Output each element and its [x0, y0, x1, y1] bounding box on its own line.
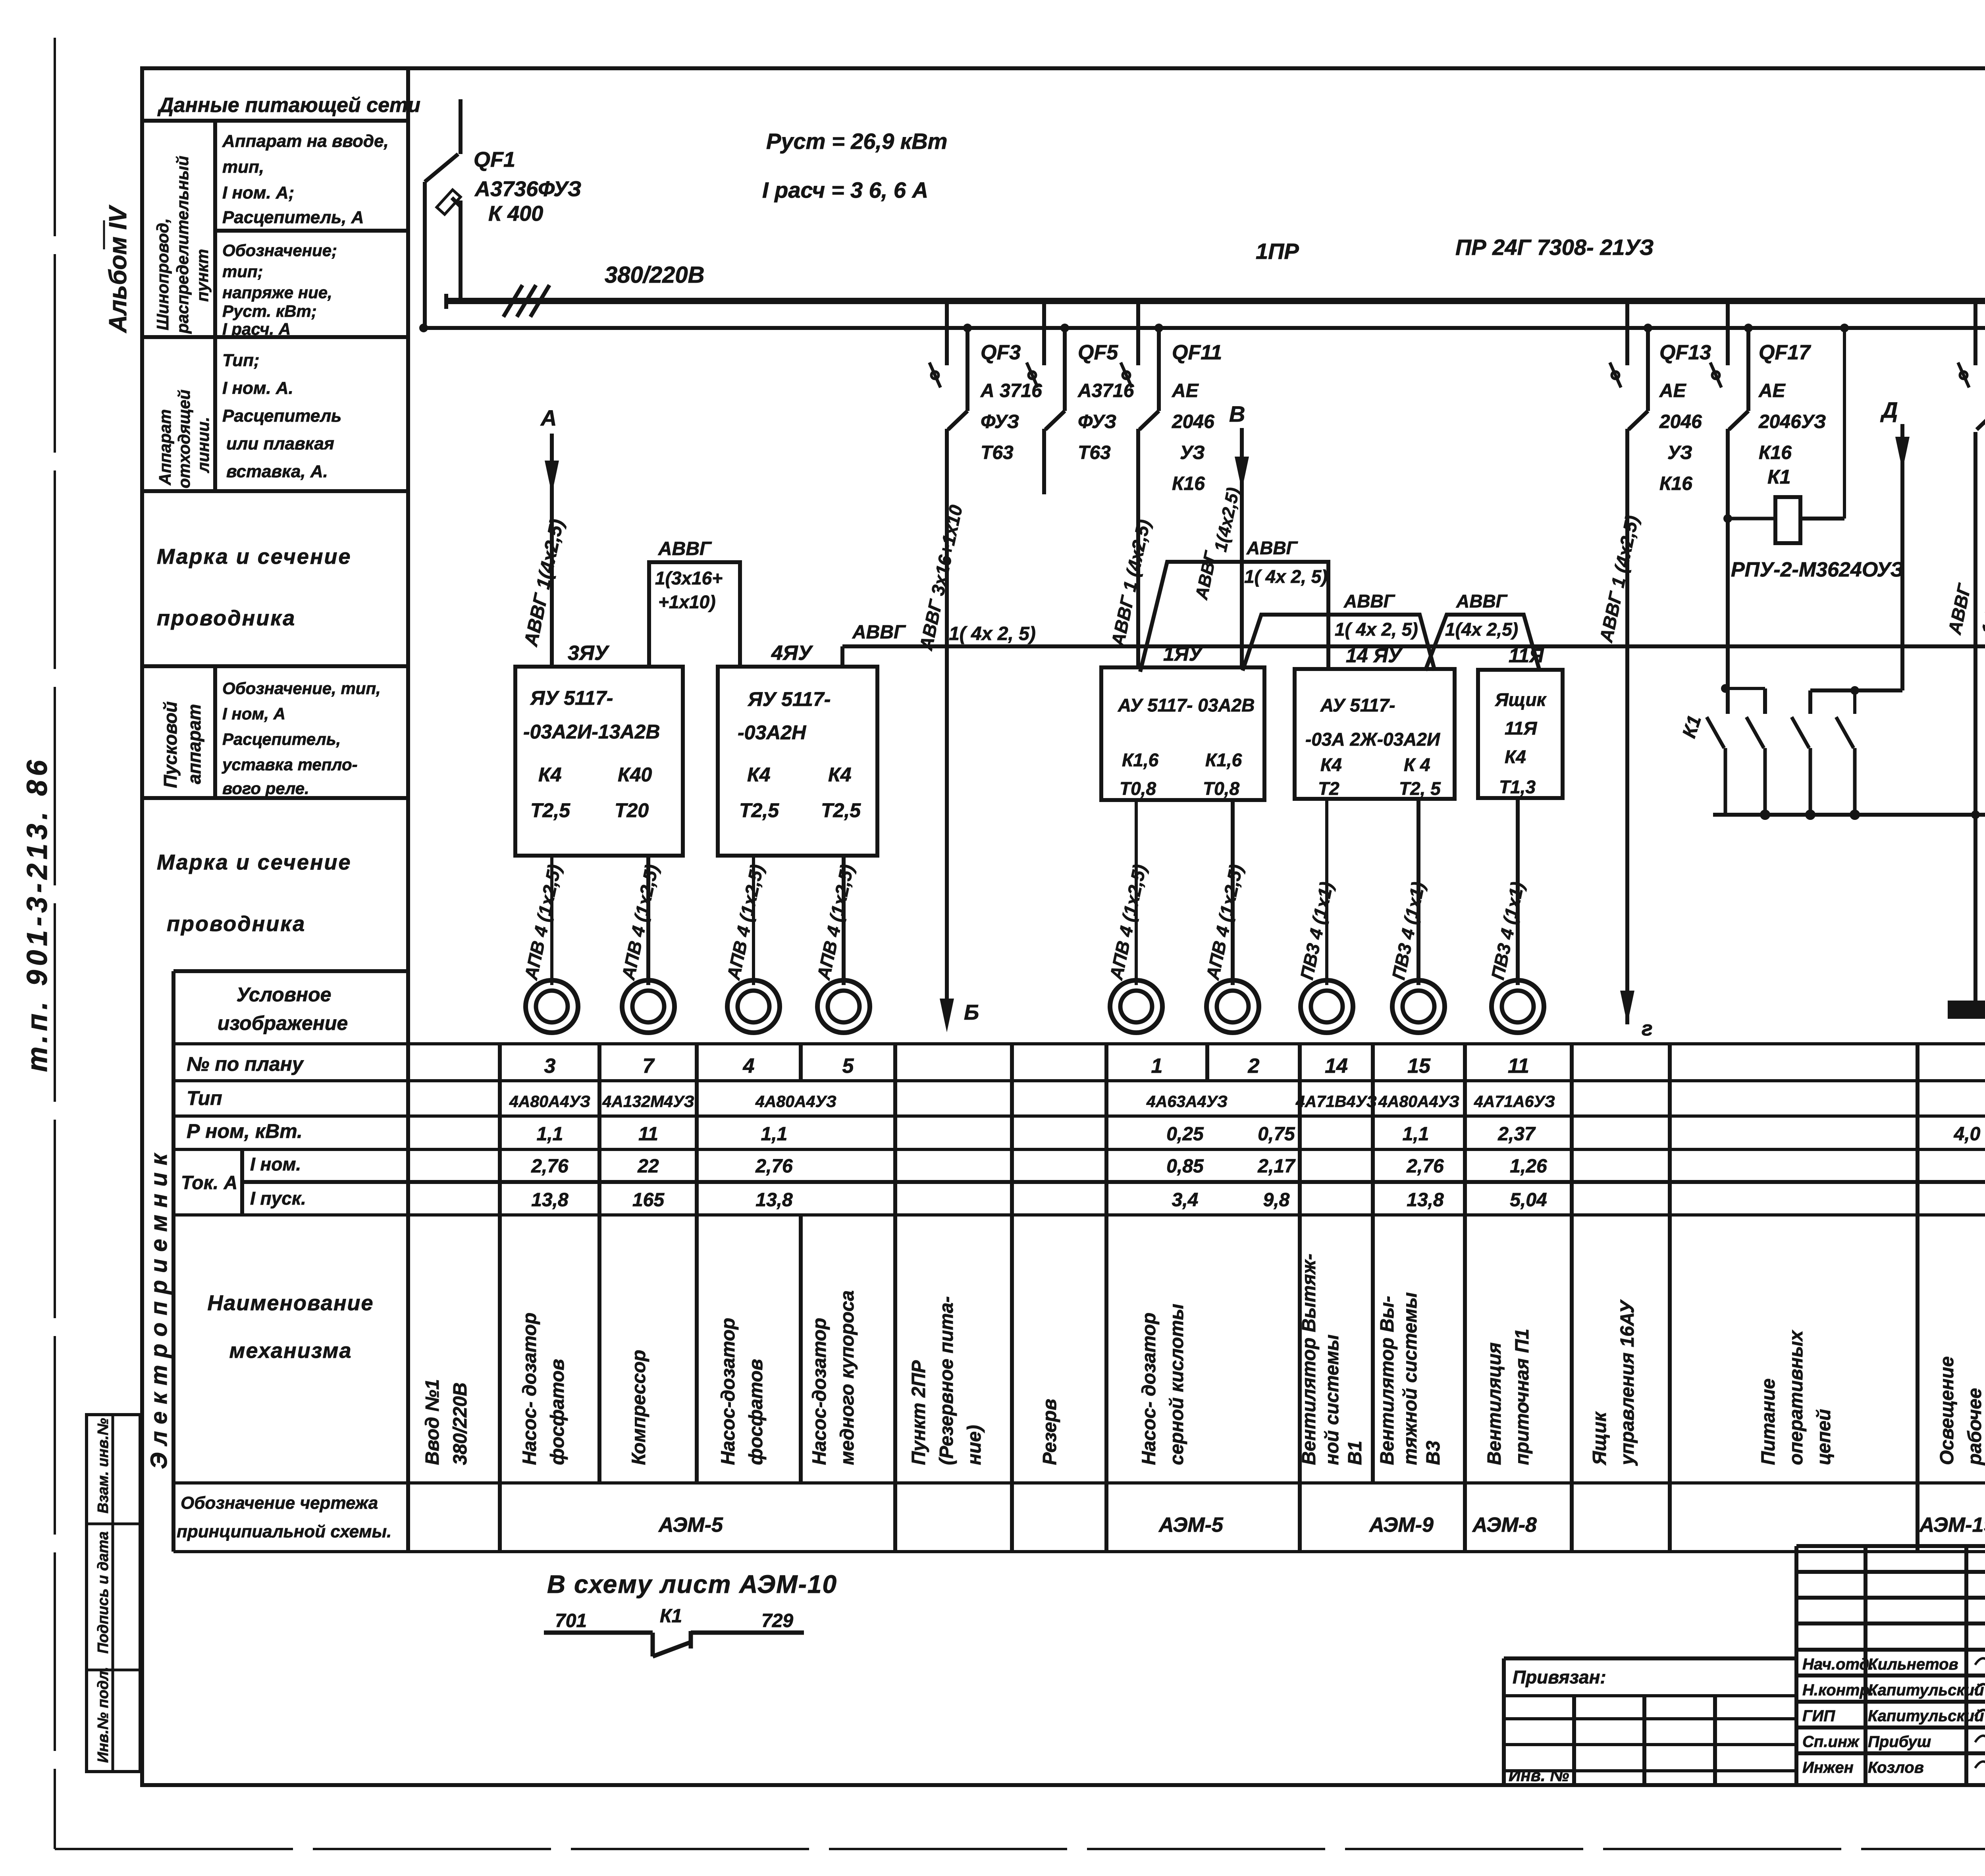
svg-text:380/220В: 380/220В: [450, 1382, 471, 1465]
svg-text:Р ном, кВт.: Р ном, кВт.: [187, 1120, 303, 1142]
svg-text:пункт: пункт: [193, 249, 212, 302]
svg-text:-03А2Н: -03А2Н: [738, 721, 806, 744]
svg-text:вставка, А.: вставка, А.: [226, 462, 328, 481]
svg-text:5: 5: [842, 1055, 854, 1078]
svg-text:14: 14: [1325, 1055, 1348, 1078]
svg-text:3,4: 3,4: [1172, 1190, 1199, 1211]
svg-text:I пуск.: I пуск.: [250, 1188, 306, 1209]
svg-text:Т0,8: Т0,8: [1203, 778, 1239, 799]
svg-text:4,0: 4,0: [1954, 1124, 1981, 1145]
svg-text:АВВГ: АВВГ: [658, 538, 712, 559]
svg-text:0,25: 0,25: [1166, 1124, 1204, 1145]
svg-text:9,8: 9,8: [1263, 1190, 1290, 1211]
svg-text:Тип;: Тип;: [222, 351, 260, 370]
svg-text:-03А 2Ж-03А2И: -03А 2Ж-03А2И: [1305, 729, 1440, 750]
svg-text:Ящик: Ящик: [1495, 689, 1547, 710]
svg-text:АЭМ-8: АЭМ-8: [1472, 1514, 1537, 1537]
svg-text:I ном. А;: I ном. А;: [222, 183, 294, 202]
svg-text:Аппарат: Аппарат: [156, 409, 174, 486]
svg-text:А 3716: А 3716: [980, 380, 1042, 401]
svg-text:QF5: QF5: [1078, 341, 1118, 364]
svg-text:А: А: [540, 405, 557, 430]
svg-text:т.п. 901-3-213. 86: т.п. 901-3-213. 86: [21, 756, 53, 1072]
svg-text:Взам. инв.№: Взам. инв.№: [95, 1418, 112, 1514]
svg-text:165: 165: [632, 1190, 665, 1211]
svg-text:Т1,3: Т1,3: [1499, 777, 1536, 797]
svg-text:Пункт 2ПР: Пункт 2ПР: [908, 1360, 929, 1465]
svg-text:Вентиляция: Вентиляция: [1484, 1342, 1505, 1465]
svg-text:I ном.: I ном.: [250, 1154, 301, 1174]
svg-text:К1: К1: [660, 1606, 682, 1627]
svg-text:1,26: 1,26: [1510, 1156, 1547, 1177]
svg-text:1,1: 1,1: [1403, 1124, 1429, 1145]
svg-text:Инжен: Инжен: [1802, 1759, 1854, 1776]
svg-text:Аппарат на вводе,: Аппарат на вводе,: [222, 131, 389, 151]
svg-text:0,85: 0,85: [1166, 1156, 1204, 1177]
svg-text:Обозначение чертежа: Обозначение чертежа: [181, 1493, 378, 1513]
svg-text:АЭМ-9: АЭМ-9: [1368, 1514, 1434, 1537]
svg-text:701: 701: [555, 1610, 587, 1631]
svg-text:АВВГ: АВВГ: [1343, 591, 1395, 611]
svg-text:Т2, 5: Т2, 5: [1399, 778, 1441, 799]
svg-text:1,1: 1,1: [761, 1124, 788, 1145]
svg-text:или плавкая: или плавкая: [226, 434, 334, 453]
svg-text:Ввод №1: Ввод №1: [422, 1379, 443, 1465]
svg-text:QF3: QF3: [981, 341, 1021, 364]
svg-text:тип,: тип,: [222, 157, 264, 177]
svg-text:(Резервное пита-: (Резервное пита-: [936, 1296, 957, 1465]
svg-text:2046: 2046: [1659, 411, 1702, 432]
svg-text:11Я: 11Я: [1509, 644, 1544, 667]
svg-text:Резерв: Резерв: [1039, 1399, 1060, 1465]
svg-text:380/220В: 380/220В: [605, 262, 705, 288]
svg-text:К4: К4: [1505, 746, 1526, 767]
svg-text:ной системы: ной системы: [1322, 1334, 1343, 1465]
svg-text:отходящей: отходящей: [175, 389, 193, 488]
svg-text:ГИП: ГИП: [1802, 1707, 1835, 1725]
svg-text:К1,6: К1,6: [1205, 750, 1242, 770]
svg-text:2,37: 2,37: [1497, 1124, 1536, 1145]
svg-text:Капитульский: Капитульский: [1868, 1681, 1984, 1699]
svg-text:11: 11: [1508, 1055, 1529, 1078]
svg-text:К4: К4: [538, 764, 562, 786]
svg-text:В1: В1: [1345, 1441, 1366, 1465]
svg-text:изображение: изображение: [218, 1012, 348, 1034]
svg-text:механизма: механизма: [229, 1339, 352, 1363]
svg-text:ЯУ 5117-: ЯУ 5117-: [530, 687, 613, 709]
svg-text:Расцепитель,: Расцепитель,: [222, 730, 341, 748]
svg-text:11Я: 11Я: [1505, 718, 1538, 738]
svg-text:QF13: QF13: [1659, 341, 1711, 364]
svg-text:Т2,5: Т2,5: [821, 799, 861, 821]
svg-text:К4: К4: [828, 764, 852, 786]
svg-text:К1,6: К1,6: [1122, 750, 1159, 770]
svg-text:АЕ: АЕ: [1659, 380, 1687, 401]
svg-text:Привязан:: Привязан:: [1513, 1667, 1606, 1687]
svg-text:Б: Б: [964, 1001, 979, 1024]
svg-text:QF1: QF1: [474, 148, 515, 172]
svg-text:1ЯУ: 1ЯУ: [1163, 643, 1204, 665]
svg-text:Марка и сечение: Марка и сечение: [157, 545, 352, 569]
svg-text:Данные питающей сети: Данные питающей сети: [157, 94, 420, 117]
svg-text:уставка тепло-: уставка тепло-: [222, 755, 358, 774]
svg-text:Насос- дозатор: Насос- дозатор: [1139, 1313, 1160, 1465]
svg-text:УЗ: УЗ: [1180, 442, 1205, 463]
svg-text:К16: К16: [1172, 473, 1205, 494]
svg-text:Т0,8: Т0,8: [1120, 778, 1156, 799]
svg-text:2,76: 2,76: [531, 1156, 569, 1177]
svg-text:4А71А6УЗ: 4А71А6УЗ: [1474, 1092, 1555, 1111]
svg-text:Нач.отд.: Нач.отд.: [1802, 1656, 1873, 1673]
svg-text:Условное: Условное: [237, 983, 331, 1006]
svg-text:Т20: Т20: [615, 799, 649, 821]
svg-text:приточная П1: приточная П1: [1512, 1329, 1533, 1465]
svg-text:1ПР: 1ПР: [1256, 239, 1299, 264]
svg-text:г: г: [1642, 1017, 1653, 1040]
svg-text:2046УЗ: 2046УЗ: [1758, 411, 1826, 432]
svg-text:Пусковой: Пусковой: [160, 702, 181, 789]
svg-text:13,8: 13,8: [1407, 1190, 1444, 1211]
svg-text:медного купороса: медного купороса: [837, 1290, 858, 1465]
svg-text:Компрессор: Компрессор: [628, 1350, 649, 1465]
svg-text:АУ 5117- 03А2В: АУ 5117- 03А2В: [1118, 695, 1255, 715]
svg-text:А3736ФУЗ: А3736ФУЗ: [474, 177, 581, 201]
svg-text:1(4х 2,5): 1(4х 2,5): [1445, 619, 1518, 640]
svg-text:Н.контр.: Н.контр.: [1802, 1681, 1874, 1699]
svg-text:ФУЗ: ФУЗ: [1078, 411, 1116, 432]
svg-text:+1х10): +1х10): [658, 592, 716, 612]
svg-text:1( 4х 2, 5): 1( 4х 2, 5): [1335, 619, 1418, 640]
svg-text:Освещение: Освещение: [1937, 1356, 1958, 1465]
svg-text:Альбом IV: Альбом IV: [104, 204, 132, 334]
svg-text:Подпись и дата: Подпись и дата: [95, 1531, 112, 1654]
svg-text:К 4: К 4: [1404, 754, 1430, 775]
svg-text:15: 15: [1407, 1055, 1431, 1078]
svg-text:Т2,5: Т2,5: [530, 799, 570, 821]
svg-text:2046: 2046: [1172, 411, 1214, 432]
svg-text:АЭМ-19: АЭМ-19: [1919, 1514, 1985, 1537]
svg-text:В схему лист АЭМ-10: В схему лист АЭМ-10: [547, 1570, 837, 1598]
svg-text:729: 729: [761, 1610, 793, 1631]
svg-text:Ящик: Ящик: [1589, 1411, 1610, 1466]
svg-text:В3: В3: [1423, 1440, 1444, 1465]
svg-text:Сп.инж: Сп.инж: [1802, 1733, 1860, 1751]
svg-text:линии.: линии.: [194, 417, 212, 473]
svg-text:I расч = 3 6, 6 А: I расч = 3 6, 6 А: [762, 177, 928, 202]
svg-text:К4: К4: [747, 764, 771, 786]
svg-text:4А80А4УЗ: 4А80А4УЗ: [509, 1092, 590, 1111]
svg-text:4ЯУ: 4ЯУ: [771, 642, 813, 665]
svg-text:14 ЯУ: 14 ЯУ: [1346, 644, 1403, 667]
svg-text:Обозначение;: Обозначение;: [222, 241, 337, 260]
svg-text:7: 7: [643, 1055, 655, 1078]
svg-text:Шинопровод,: Шинопровод,: [153, 218, 172, 330]
svg-text:5,04: 5,04: [1510, 1190, 1547, 1211]
svg-text:4А132М4УЗ: 4А132М4УЗ: [602, 1092, 694, 1111]
svg-text:13,8: 13,8: [531, 1190, 569, 1211]
svg-text:К4: К4: [1320, 754, 1342, 775]
svg-text:Тип: Тип: [187, 1087, 222, 1109]
svg-text:3: 3: [544, 1055, 556, 1078]
svg-text:управления 16АУ: управления 16АУ: [1617, 1299, 1638, 1466]
svg-text:1(3х16+: 1(3х16+: [655, 568, 723, 588]
svg-text:Электроприемник: Электроприемник: [146, 1147, 172, 1469]
svg-text:К16: К16: [1659, 473, 1692, 494]
svg-text:-03А2И-13А2В: -03А2И-13А2В: [523, 721, 660, 743]
svg-text:АВВГ: АВВГ: [1456, 591, 1508, 611]
svg-text:Вентилятор Вы-: Вентилятор Вы-: [1377, 1296, 1398, 1465]
svg-text:В: В: [1229, 401, 1245, 426]
svg-text:QF11: QF11: [1172, 341, 1222, 364]
svg-text:Ток. А: Ток. А: [181, 1172, 237, 1193]
svg-text:рабочее: рабочее: [1964, 1388, 1985, 1466]
svg-text:проводника: проводника: [157, 606, 296, 630]
svg-text:АВВГ: АВВГ: [1246, 538, 1298, 558]
svg-text:Т2: Т2: [1318, 778, 1339, 799]
svg-text:проводника: проводника: [167, 912, 306, 936]
svg-text:Питание: Питание: [1758, 1379, 1779, 1465]
svg-text:Марка и сечение: Марка и сечение: [157, 850, 352, 874]
svg-text:Козлов: Козлов: [1868, 1759, 1924, 1776]
svg-text:4А63А4УЗ: 4А63А4УЗ: [1146, 1092, 1228, 1111]
svg-text:РПУ-2-М3624ОУЗ: РПУ-2-М3624ОУЗ: [1731, 558, 1904, 581]
svg-text:ЯУ 5117-: ЯУ 5117-: [747, 688, 831, 710]
svg-text:4А80А4УЗ: 4А80А4УЗ: [755, 1092, 836, 1111]
svg-text:вого реле.: вого реле.: [222, 779, 309, 798]
svg-text:фосфатов: фосфатов: [547, 1359, 568, 1465]
svg-text:I ном. А.: I ном. А.: [222, 378, 293, 398]
svg-text:№ по плану: № по плану: [187, 1053, 304, 1075]
svg-text:Капитульский: Капитульский: [1868, 1707, 1984, 1725]
svg-text:АВВГ: АВВГ: [852, 622, 906, 643]
svg-text:оперативных: оперативных: [1786, 1330, 1807, 1465]
svg-text:Обозначение, тип,: Обозначение, тип,: [222, 679, 381, 698]
svg-text:АЭМ-5: АЭМ-5: [658, 1514, 723, 1537]
svg-text:Руст. кВт;: Руст. кВт;: [222, 302, 317, 320]
svg-text:К 400: К 400: [488, 202, 543, 226]
svg-text:серной кислоты: серной кислоты: [1166, 1304, 1187, 1465]
svg-text:АЕ: АЕ: [1172, 380, 1199, 401]
svg-text:фосфатов: фосфатов: [746, 1359, 767, 1465]
svg-text:Т63: Т63: [1078, 442, 1111, 463]
svg-text:ПР 24Г 7308- 21УЗ: ПР 24Г 7308- 21УЗ: [1455, 235, 1654, 260]
svg-text:Расцепитель, А: Расцепитель, А: [222, 208, 364, 227]
svg-text:1( 4х 2, 5): 1( 4х 2, 5): [1244, 566, 1328, 587]
svg-text:Руст = 26,9 кВт: Руст = 26,9 кВт: [766, 129, 947, 154]
svg-text:Расцепитель: Расцепитель: [222, 406, 341, 426]
svg-text:4А80А4УЗ: 4А80А4УЗ: [1378, 1092, 1459, 1111]
svg-text:Инв. №: Инв. №: [1509, 1766, 1569, 1785]
svg-text:Вентилятор Вытяж-: Вентилятор Вытяж-: [1299, 1254, 1320, 1465]
svg-text:2,76: 2,76: [1406, 1156, 1444, 1177]
svg-text:Т63: Т63: [981, 442, 1014, 463]
svg-text:АЕ: АЕ: [1758, 380, 1786, 401]
svg-text:Инв.№ подл.: Инв.№ подл.: [95, 1667, 112, 1763]
svg-text:ние): ние): [964, 1425, 985, 1465]
svg-text:QF17: QF17: [1759, 341, 1811, 364]
svg-text:аппарат: аппарат: [184, 704, 204, 784]
svg-text:4А71В4УЗ: 4А71В4УЗ: [1295, 1092, 1377, 1111]
svg-text:2: 2: [1248, 1055, 1260, 1078]
svg-text:1: 1: [1151, 1055, 1163, 1078]
svg-text:2,17: 2,17: [1257, 1156, 1296, 1177]
svg-text:А3716: А3716: [1077, 380, 1134, 401]
svg-text:4: 4: [743, 1055, 755, 1078]
svg-text:2,76: 2,76: [755, 1156, 793, 1177]
svg-text:тип;: тип;: [222, 262, 263, 281]
svg-text:напряже ние,: напряже ние,: [222, 283, 332, 302]
svg-text:К1: К1: [1767, 466, 1791, 488]
svg-text:I расч. А: I расч. А: [222, 320, 291, 338]
svg-text:принципиальной схемы.: принципиальной схемы.: [177, 1522, 391, 1541]
svg-text:22: 22: [637, 1156, 659, 1177]
svg-text:Насос-дозатор: Насос-дозатор: [718, 1318, 739, 1465]
svg-text:распределительный: распределительный: [173, 156, 192, 334]
svg-text:Насос- дозатор: Насос- дозатор: [519, 1313, 540, 1465]
svg-text:3ЯУ: 3ЯУ: [568, 642, 610, 665]
svg-text:Насос-дозатор: Насос-дозатор: [809, 1318, 830, 1465]
svg-text:Д: Д: [1880, 397, 1898, 422]
svg-text:К40: К40: [618, 764, 652, 786]
svg-text:I ном, А: I ном, А: [222, 704, 285, 723]
svg-text:11: 11: [638, 1124, 658, 1145]
svg-text:УЗ: УЗ: [1667, 442, 1692, 463]
svg-text:Прибуш: Прибуш: [1868, 1733, 1931, 1751]
svg-text:13,8: 13,8: [755, 1190, 793, 1211]
svg-text:АУ 5117-: АУ 5117-: [1320, 695, 1395, 715]
svg-text:1( 4х 2, 5): 1( 4х 2, 5): [949, 623, 1036, 644]
svg-text:ФУЗ: ФУЗ: [981, 411, 1019, 432]
svg-text:1,1: 1,1: [537, 1124, 563, 1145]
svg-text:К16: К16: [1759, 442, 1792, 463]
svg-text:АЭМ-5: АЭМ-5: [1158, 1514, 1224, 1537]
svg-text:тяжной системы: тяжной системы: [1400, 1292, 1421, 1465]
svg-text:цепей: цепей: [1813, 1409, 1835, 1465]
svg-text:Т2,5: Т2,5: [739, 799, 779, 821]
svg-text:0,75: 0,75: [1258, 1124, 1295, 1145]
svg-text:Кильнетов: Кильнетов: [1868, 1656, 1958, 1673]
svg-text:Наименование: Наименование: [207, 1291, 374, 1315]
